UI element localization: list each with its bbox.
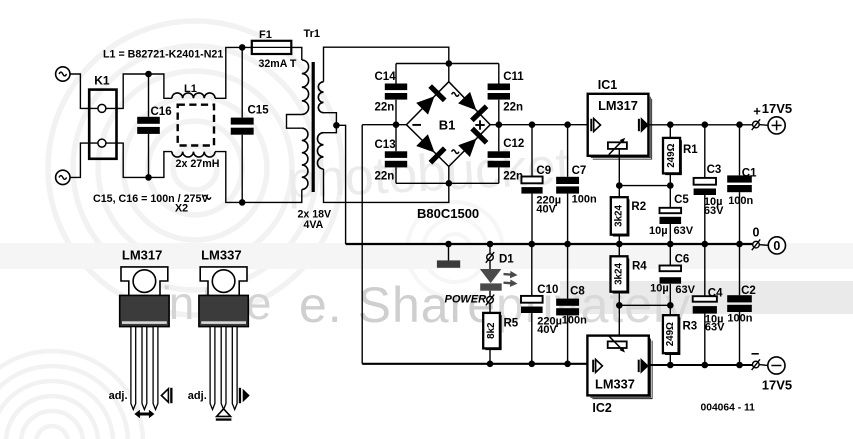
- svg-text:IC1: IC1: [598, 78, 618, 92]
- svg-text:63V: 63V: [674, 225, 694, 237]
- svg-text:40V: 40V: [537, 324, 557, 336]
- svg-text:249Ω: 249Ω: [665, 322, 676, 346]
- svg-text:IC2: IC2: [592, 401, 612, 415]
- svg-text:C15: C15: [248, 105, 270, 117]
- svg-text:0: 0: [773, 239, 780, 253]
- svg-text:40V: 40V: [536, 204, 556, 216]
- svg-text:LM337: LM337: [201, 248, 241, 263]
- svg-text:249Ω: 249Ω: [666, 143, 677, 167]
- svg-text:C16: C16: [151, 106, 172, 118]
- svg-text:2x 27mH: 2x 27mH: [176, 158, 220, 170]
- svg-text:8k2: 8k2: [486, 322, 497, 339]
- svg-text:F1: F1: [259, 29, 272, 41]
- svg-text:63V: 63V: [705, 322, 725, 334]
- svg-text:LM317: LM317: [122, 248, 162, 263]
- svg-text:22n: 22n: [503, 102, 523, 114]
- svg-text:C4: C4: [708, 287, 723, 299]
- svg-text:17V5: 17V5: [762, 101, 792, 116]
- svg-text:C13: C13: [375, 139, 396, 151]
- svg-text:3k24: 3k24: [614, 263, 625, 285]
- svg-text:004064 - 11: 004064 - 11: [701, 402, 756, 413]
- svg-text:Tr1: Tr1: [304, 28, 321, 40]
- svg-text:C14: C14: [375, 71, 397, 83]
- svg-text:C2: C2: [741, 285, 756, 297]
- svg-text:C15, C16 = 100n / 275V: C15, C16 = 100n / 275V: [93, 193, 209, 205]
- svg-text:22n: 22n: [375, 170, 395, 182]
- svg-text:C6: C6: [675, 253, 690, 265]
- svg-text:+: +: [753, 103, 761, 118]
- svg-text:32mA T: 32mA T: [259, 58, 297, 70]
- svg-text:C9: C9: [536, 165, 551, 177]
- svg-text:100n: 100n: [728, 195, 753, 207]
- svg-text:C3: C3: [707, 164, 722, 176]
- svg-text:22n: 22n: [503, 170, 523, 182]
- svg-text:R1: R1: [683, 144, 698, 156]
- svg-text:22n: 22n: [375, 102, 395, 114]
- svg-text:100n: 100n: [727, 313, 752, 325]
- svg-text:L1 = B82721-K2401-N21: L1 = B82721-K2401-N21: [103, 48, 223, 60]
- svg-text:LM337: LM337: [595, 377, 635, 392]
- svg-text:K1: K1: [94, 74, 110, 88]
- svg-text:R2: R2: [631, 201, 646, 213]
- svg-text:63V: 63V: [675, 284, 695, 296]
- svg-text:D1: D1: [499, 253, 514, 265]
- svg-text:R3: R3: [683, 321, 698, 333]
- svg-text:10µ: 10µ: [649, 225, 668, 237]
- svg-text:C10: C10: [537, 284, 558, 296]
- svg-text:17V5: 17V5: [762, 377, 792, 392]
- svg-text:LM317: LM317: [598, 98, 638, 113]
- svg-text:3k24: 3k24: [614, 205, 625, 227]
- svg-text:C11: C11: [503, 71, 524, 83]
- svg-text:C12: C12: [503, 138, 524, 150]
- svg-text:R4: R4: [632, 260, 647, 272]
- svg-text:R5: R5: [504, 318, 519, 330]
- svg-text:POWER: POWER: [445, 293, 487, 305]
- svg-text:adj.: adj.: [109, 390, 128, 402]
- svg-text:4VA: 4VA: [304, 219, 324, 231]
- svg-text:0: 0: [753, 226, 760, 240]
- svg-text:100n: 100n: [562, 315, 587, 327]
- svg-text:100n: 100n: [572, 194, 597, 206]
- svg-text:C1: C1: [742, 167, 757, 179]
- svg-text:63V: 63V: [704, 205, 724, 217]
- svg-text:C8: C8: [570, 286, 585, 298]
- svg-text:adj.: adj.: [188, 390, 207, 402]
- svg-text:L1: L1: [184, 83, 197, 95]
- svg-text:C7: C7: [572, 165, 587, 177]
- svg-text:B80C1500: B80C1500: [417, 206, 479, 221]
- svg-text:B1: B1: [439, 117, 456, 132]
- svg-text:C5: C5: [674, 194, 689, 206]
- svg-text:10µ: 10µ: [650, 283, 669, 295]
- svg-text:X2: X2: [175, 202, 188, 214]
